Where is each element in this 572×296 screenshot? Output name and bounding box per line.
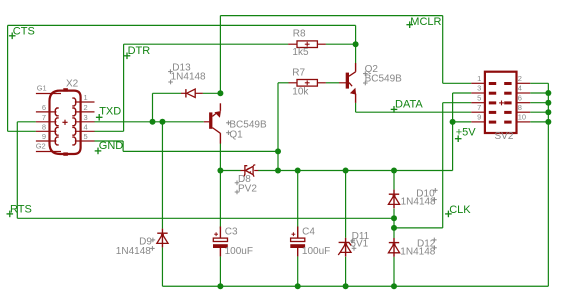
svg-text:3: 3: [84, 113, 88, 122]
svg-text:CLK: CLK: [449, 204, 471, 216]
svg-text:2: 2: [84, 103, 88, 112]
svg-text:1k5: 1k5: [292, 47, 309, 58]
svg-text:DATA: DATA: [395, 99, 423, 111]
svg-text:1N4148: 1N4148: [400, 246, 435, 257]
svg-text:RTS: RTS: [10, 203, 32, 215]
svg-text:BC549B: BC549B: [365, 73, 403, 84]
svg-text:C4: C4: [302, 227, 315, 238]
svg-text:1N4148: 1N4148: [401, 196, 436, 207]
svg-text:CTS: CTS: [13, 25, 35, 37]
svg-text:TXD: TXD: [99, 106, 121, 118]
svg-text:9: 9: [477, 113, 481, 122]
svg-text:6: 6: [42, 103, 46, 112]
svg-text:4: 4: [518, 84, 522, 93]
svg-text:G1: G1: [37, 84, 47, 93]
svg-text:10k: 10k: [292, 87, 309, 98]
svg-text:C3: C3: [225, 227, 238, 238]
svg-text:1N4148: 1N4148: [116, 246, 151, 257]
svg-text:SV2: SV2: [495, 131, 514, 142]
svg-text:R8: R8: [293, 28, 306, 39]
svg-text:5: 5: [477, 93, 481, 102]
svg-text:8: 8: [42, 122, 46, 131]
svg-text:10: 10: [518, 113, 526, 122]
svg-text:5: 5: [84, 132, 88, 141]
svg-text:100uF: 100uF: [225, 246, 253, 257]
svg-text:1: 1: [477, 74, 481, 83]
svg-text:100uF: 100uF: [302, 246, 330, 257]
svg-text:3: 3: [477, 84, 481, 93]
svg-text:7: 7: [477, 103, 481, 112]
svg-text:G2: G2: [36, 142, 46, 151]
svg-text:7: 7: [42, 113, 46, 122]
svg-text:9: 9: [42, 132, 46, 141]
svg-text:8: 8: [518, 103, 522, 112]
svg-text:PV2: PV2: [238, 183, 257, 194]
svg-text:1N4148: 1N4148: [171, 72, 206, 83]
svg-text:6: 6: [518, 93, 522, 102]
svg-text:4: 4: [84, 122, 88, 131]
svg-text:GND: GND: [99, 140, 124, 152]
svg-text:X2: X2: [66, 78, 79, 89]
svg-text:2: 2: [518, 74, 522, 83]
svg-text:DTR: DTR: [128, 45, 151, 57]
svg-text:R7: R7: [292, 67, 305, 78]
svg-text:MCLR: MCLR: [410, 16, 441, 28]
svg-text:Q1: Q1: [229, 130, 243, 141]
svg-text:1: 1: [84, 93, 88, 102]
